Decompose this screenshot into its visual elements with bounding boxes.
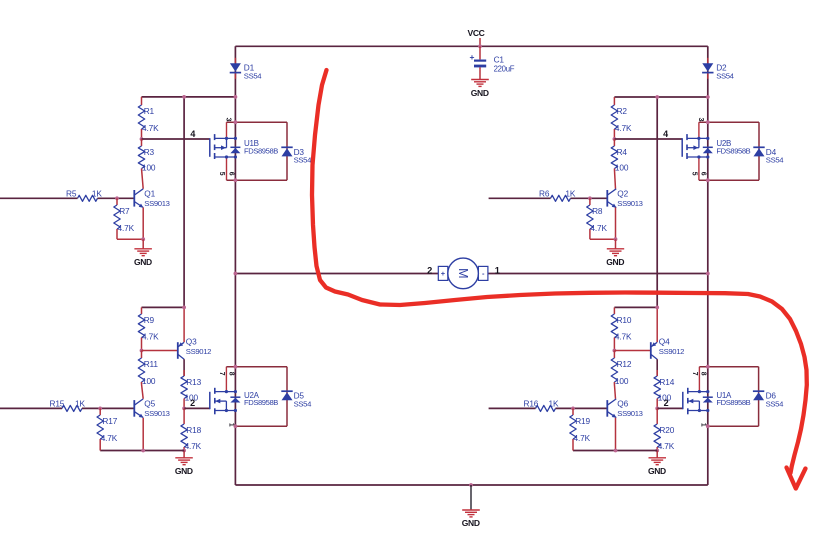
wire R6 to Q2 base: [571, 197, 608, 199]
svg-text:1: 1: [227, 423, 234, 427]
svg-text:SS54: SS54: [244, 71, 262, 80]
wire gate U1B: [142, 138, 210, 140]
svg-text:SS54: SS54: [294, 400, 312, 409]
svg-text:R15: R15: [50, 399, 65, 409]
resistor R20 4.7K: [654, 408, 675, 451]
junction R2-R4-gate: [613, 137, 617, 141]
wire R10 top: [614, 306, 657, 308]
junction bias left: [182, 306, 186, 310]
wire Q3 collector to R13: [183, 359, 185, 376]
ground bottom-right ground: [648, 451, 666, 477]
wire R7 bottom to Q1 emitter node: [116, 232, 118, 240]
wire left bias vertical lower: [183, 307, 185, 342]
wire right bridge vertical (VCC-D2-U2B-motor-U1A-rail): [707, 46, 709, 485]
svg-text:4.7K: 4.7K: [615, 123, 632, 133]
op-amp U1A FDS8958B N-MOSFET half: [683, 367, 759, 427]
wire right bias vertical: [656, 97, 658, 307]
diode D6 SS54: [753, 391, 784, 409]
svg-text:GND: GND: [462, 518, 480, 528]
wire bottom-left gnd rail: [100, 450, 184, 452]
svg-text:4.7K: 4.7K: [142, 123, 159, 133]
svg-text:SS9013: SS9013: [617, 409, 642, 418]
svg-text:VCC: VCC: [467, 28, 484, 38]
junction VCC-C1: [478, 44, 482, 48]
wire Q1 emitter down: [142, 208, 144, 240]
resistor R17 4.7K: [97, 408, 118, 450]
svg-text:GND: GND: [648, 466, 666, 476]
svg-text:2: 2: [427, 265, 432, 275]
svg-text:R16: R16: [524, 399, 539, 409]
svg-text:R1: R1: [144, 106, 155, 116]
op-amp U2A FDS8958B N-MOSFET half: [210, 367, 287, 427]
resistor R19 4.7K: [570, 408, 591, 450]
junction R9-R11-Q3base: [140, 349, 144, 353]
wire input left bottom: [0, 407, 62, 409]
svg-text:R5: R5: [66, 188, 77, 198]
resistor R13 100: [181, 370, 202, 408]
svg-text:4.7K: 4.7K: [574, 433, 591, 443]
svg-text:M: M: [456, 268, 470, 278]
wire Q3 base: [142, 350, 178, 352]
svg-text:R6: R6: [539, 188, 550, 198]
svg-text:4.7K: 4.7K: [590, 223, 607, 233]
ground C1 ground: [471, 70, 489, 98]
junction Q2 emitter gnd: [614, 237, 618, 241]
resistor R6 1K: [539, 188, 576, 201]
svg-text:SS9012: SS9012: [659, 347, 684, 356]
svg-text:4.7K: 4.7K: [101, 433, 118, 443]
junction R15-R17: [98, 407, 102, 411]
wire gate U2B: [614, 138, 682, 140]
svg-text:SS9013: SS9013: [617, 199, 642, 208]
junction R20 bottom: [655, 449, 659, 453]
resistor R5 1K: [66, 188, 102, 201]
transistor Q6 SS9013 NPN: [607, 398, 642, 418]
svg-text:+: +: [470, 52, 475, 62]
diode D3 SS54: [281, 147, 312, 165]
svg-text:R14: R14: [659, 377, 674, 387]
svg-text:FDS8958B: FDS8958B: [716, 398, 750, 407]
wire R3 to Q1 collector: [142, 169, 144, 189]
svg-text:R3: R3: [144, 147, 155, 157]
svg-text:220uF: 220uF: [494, 65, 515, 74]
svg-text:1K: 1K: [549, 399, 559, 409]
wire gate U2A: [184, 407, 210, 409]
junction Q5 emitter: [141, 449, 145, 453]
ground Q2 ground: [606, 239, 624, 267]
svg-text:4.7K: 4.7K: [615, 332, 632, 342]
svg-text:SS9012: SS9012: [186, 347, 211, 356]
svg-text:GND: GND: [471, 88, 489, 98]
svg-text:R11: R11: [144, 359, 159, 369]
svg-text:Q1: Q1: [144, 188, 155, 198]
wire R1 top to left vertical: [142, 96, 236, 98]
resistor R7 4.7K: [114, 198, 135, 233]
svg-text:R8: R8: [592, 206, 603, 216]
wire R2 top to right vertical: [614, 96, 707, 98]
svg-text:2: 2: [190, 398, 195, 408]
svg-text:4.7K: 4.7K: [658, 441, 675, 451]
svg-text:1K: 1K: [565, 188, 575, 198]
power VCC symbol: [467, 28, 484, 46]
svg-text:R13: R13: [186, 377, 201, 387]
junction R10-R12-Q4base: [613, 349, 617, 353]
diode D2 SS54: [702, 58, 735, 81]
svg-text:1K: 1K: [75, 399, 85, 409]
svg-text:SS9013: SS9013: [144, 199, 169, 208]
ground Q1 ground: [134, 239, 152, 267]
svg-text:Q2: Q2: [617, 188, 628, 198]
wire motor left: [235, 273, 438, 275]
junction bottom rail gnd: [469, 483, 473, 487]
transistor Q3 SS9012 PNP: [178, 337, 211, 360]
junction Q6 emitter: [614, 449, 618, 453]
resistor R11 100: [138, 351, 158, 387]
svg-text:R20: R20: [659, 425, 674, 435]
svg-text:R7: R7: [119, 206, 130, 216]
svg-text:5: 5: [218, 172, 225, 176]
red marker annotation stroke: [312, 70, 807, 473]
resistor R18 4.7K: [181, 408, 202, 451]
wire left bias vertical: [183, 97, 185, 308]
wire Q2 emitter down: [615, 208, 617, 240]
ground bottom-left ground: [175, 451, 193, 477]
svg-text:SS54: SS54: [716, 71, 734, 80]
wire R12 to Q6 collector: [614, 384, 615, 399]
wire right bias vertical lower: [656, 307, 658, 342]
svg-text:R4: R4: [617, 147, 628, 157]
svg-text:7: 7: [691, 372, 698, 376]
resistor R10 4.7K: [611, 307, 632, 350]
resistor R2 4.7K: [611, 97, 632, 139]
junction R13-R18-gate U2A: [182, 407, 186, 411]
transistor Q4 SS9012 PNP: [651, 337, 684, 360]
wire R11 to Q5 collector: [142, 384, 144, 399]
svg-text:1: 1: [700, 423, 707, 427]
wire R16 to Q6 base: [556, 407, 608, 409]
junction motor right: [706, 272, 710, 276]
svg-text:FDS8958B: FDS8958B: [244, 398, 278, 407]
wire R4 to Q2 collector: [614, 169, 615, 189]
svg-text:100: 100: [142, 376, 156, 386]
svg-text:SS54: SS54: [294, 156, 312, 165]
svg-text:1K: 1K: [92, 188, 102, 198]
wire input right top: [489, 197, 551, 199]
svg-text:Q6: Q6: [617, 398, 628, 408]
wire input right bottom: [489, 407, 536, 409]
node VCC power rail: [235, 45, 707, 47]
svg-text:3: 3: [225, 118, 232, 122]
wire bottom-right gnd rail: [573, 450, 657, 452]
wire input left top: [0, 197, 78, 199]
svg-text:GND: GND: [134, 257, 152, 267]
svg-text:GND: GND: [606, 257, 624, 267]
svg-text:4: 4: [190, 129, 195, 139]
svg-text:+: +: [441, 269, 446, 278]
svg-text:SS9013: SS9013: [144, 409, 169, 418]
resistor R14 100: [654, 370, 675, 408]
wire gnd stub: [470, 485, 472, 510]
wire Q6 emitter down: [615, 418, 617, 451]
wire motor right: [488, 273, 708, 275]
wire R15 to Q5 base: [82, 407, 134, 409]
svg-text:6: 6: [227, 172, 234, 176]
svg-text:2: 2: [664, 398, 669, 408]
wire left bridge vertical (VCC-D1-U1B-motor-U2A-rail): [234, 46, 236, 485]
op-amp U1B FDS8958B P-MOSFET half: [210, 122, 287, 180]
junction motor left: [234, 272, 238, 276]
op-amp U2B FDS8958B P-MOSFET half: [682, 122, 759, 180]
svg-text:6: 6: [700, 172, 707, 176]
junction R6-R8: [588, 196, 592, 200]
svg-text:FDS8958B: FDS8958B: [716, 146, 750, 155]
svg-text:4.7K: 4.7K: [185, 441, 202, 451]
wire bottom rail: [235, 484, 707, 486]
svg-text:R18: R18: [186, 425, 201, 435]
svg-text:C1: C1: [494, 55, 505, 65]
capacitor C1 220uF: [470, 46, 515, 73]
wire Q4 collector to R14: [656, 359, 658, 376]
resistor R9 4.7K: [138, 307, 159, 350]
svg-text:4: 4: [663, 129, 668, 139]
transistor Q2 SS9013 NPN: [607, 188, 642, 208]
svg-text:SS54: SS54: [766, 400, 784, 409]
diode D5 SS54: [281, 391, 312, 409]
resistor R8 4.7K: [587, 198, 608, 233]
junction R16-R19: [571, 407, 575, 411]
svg-text:R17: R17: [102, 416, 117, 426]
transistor Q1 SS9013 NPN: [134, 188, 169, 208]
motor M1 DC motor: [438, 258, 488, 289]
svg-text:7: 7: [218, 372, 225, 376]
diode D4 SS54: [753, 147, 784, 165]
diode D1 SS54: [230, 58, 263, 81]
wire R9 top: [142, 306, 185, 308]
svg-text:8: 8: [700, 372, 707, 376]
svg-text:R9: R9: [144, 315, 155, 325]
svg-text:R2: R2: [617, 106, 628, 116]
svg-text:1: 1: [495, 265, 500, 275]
wire Q4 base: [614, 350, 650, 352]
junction R14-R20-gate U1A: [655, 407, 659, 411]
svg-text:5: 5: [690, 172, 697, 176]
wire Q5 emitter down: [142, 418, 144, 451]
svg-text:FDS8958B: FDS8958B: [244, 146, 278, 155]
svg-text:4.7K: 4.7K: [142, 332, 159, 342]
wire R8 bottom to Q2 emitter node: [589, 232, 591, 240]
svg-text:R10: R10: [617, 315, 632, 325]
svg-text:3: 3: [697, 118, 704, 122]
junction R1-R3-gate: [140, 137, 144, 141]
resistor R16 1K: [524, 399, 559, 412]
svg-text:R19: R19: [575, 416, 590, 426]
wire gate U1A: [657, 407, 683, 409]
wire R5 to Q1 base: [98, 197, 135, 199]
svg-text:8: 8: [227, 372, 234, 376]
svg-text:4.7K: 4.7K: [118, 223, 135, 233]
resistor R15 1K: [50, 399, 86, 412]
junction R5-R7: [115, 196, 119, 200]
svg-text:R12: R12: [617, 359, 632, 369]
resistor R12 100: [611, 351, 632, 387]
red marker arrowhead: [787, 468, 806, 489]
junction bias right: [655, 306, 659, 310]
resistor R3 100: [138, 139, 156, 173]
ground main: [462, 510, 480, 528]
svg-text:Q3: Q3: [186, 337, 197, 347]
svg-text:GND: GND: [175, 466, 193, 476]
svg-text:Q4: Q4: [659, 337, 670, 347]
svg-text:100: 100: [615, 376, 629, 386]
svg-text:100: 100: [615, 163, 629, 173]
junction Q1 emitter gnd: [141, 237, 145, 241]
junction R18 bottom: [182, 449, 186, 453]
resistor R1 4.7K: [138, 97, 159, 139]
transistor Q5 SS9013 NPN: [134, 398, 169, 418]
svg-text:Q5: Q5: [144, 398, 155, 408]
svg-text:SS54: SS54: [766, 156, 784, 165]
svg-text:100: 100: [142, 163, 156, 173]
resistor R4 100: [611, 139, 629, 173]
